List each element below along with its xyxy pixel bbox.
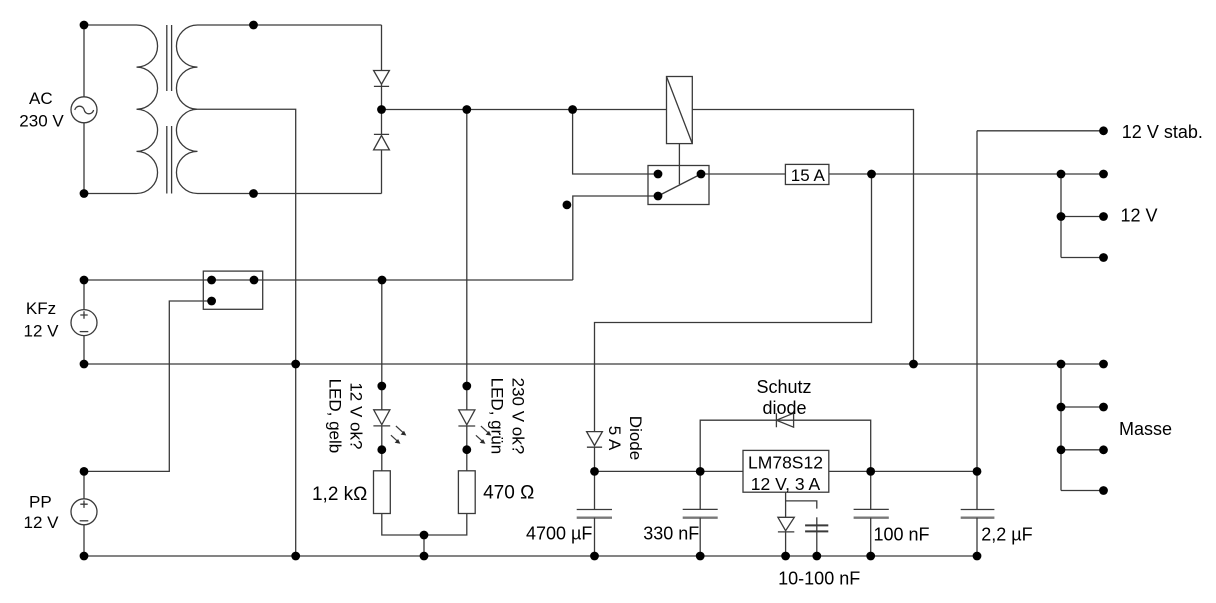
relay coil K1 diagonal [667, 77, 693, 144]
wire ground bottom rail [84, 555, 977, 557]
LED2 arrows [476, 426, 489, 442]
LED2 wire to resistor [466, 426, 468, 471]
node ground C3 [812, 552, 821, 561]
terminal Masse c [1099, 445, 1108, 454]
svg-text:LM78S12: LM78S12 [748, 452, 823, 472]
svg-text:230 V: 230 V [19, 111, 64, 130]
node LED2 anode [462, 382, 471, 391]
node ground D5 [781, 552, 790, 561]
svg-text:230 V ok?LED, grün: 230 V ok?LED, grün [488, 378, 528, 455]
node contact NO [654, 170, 663, 179]
capacitor C4 100nF top lead [870, 471, 872, 509]
capacitor C5 2.2uF top lead [976, 471, 978, 509]
node LED1 tap [378, 276, 387, 285]
node 12V group top [1057, 170, 1066, 179]
terminal 12V c [1099, 253, 1108, 262]
svg-text:12 V stab.: 12 V stab. [1122, 122, 1203, 142]
wire branch to trimmer cap [786, 501, 817, 509]
capacitor C1 4700uF bottom lead [594, 518, 596, 556]
PP source V3 circle [71, 499, 97, 525]
relay coil K1 [667, 77, 693, 144]
svg-text:15 A: 15 A [791, 166, 826, 185]
wire fuse node down to Diode 5A branch [595, 174, 872, 432]
node regulator input [696, 467, 705, 476]
capacitor C3 10-100nF lead and plates [816, 517, 818, 556]
wire rail branch to contact input [573, 110, 658, 175]
wire D5 to ground rail [785, 532, 787, 556]
wire secondary top to rectifier [198, 24, 382, 26]
capacitor C2 330nF top lead [699, 471, 701, 509]
node relay rail to Masse [909, 360, 918, 369]
node KFz minus [80, 360, 89, 369]
node 2.2uF top [973, 467, 982, 476]
diode D5 under regulator [778, 517, 794, 532]
node KFz switch lower [207, 297, 216, 306]
node LED2 cathode [462, 445, 471, 454]
transformer T1 core [167, 25, 172, 194]
fuse F1 15A box [785, 164, 829, 184]
wire secondary bottom to rectifier [198, 193, 382, 195]
wire contact common to KFz changeover [573, 196, 658, 280]
capacitor C2 330nF bottom lead [699, 518, 701, 556]
wire rectified rail to relay coil [382, 110, 914, 365]
node PP minus [80, 552, 89, 561]
node LED common ground [420, 552, 429, 561]
wire Masse terminal group [1061, 364, 1104, 491]
wire R1 to common [382, 514, 424, 536]
svg-text:12 V: 12 V [24, 513, 60, 532]
node secondary bottom polarity [249, 189, 258, 198]
node LED2 tap [462, 105, 471, 114]
wire D3 to reservoir node [594, 447, 596, 471]
node reservoir [590, 467, 599, 476]
wire Masse rail [84, 363, 1104, 365]
KFz source plus sign [80, 311, 87, 318]
wire AC top lead [83, 25, 85, 97]
node center tap ground [291, 552, 300, 561]
svg-text:Masse: Masse [1119, 419, 1172, 439]
node AC top [80, 21, 89, 30]
wire 12V stab output [977, 131, 1104, 472]
svg-text:12 V: 12 V [24, 322, 60, 341]
node contact output [697, 170, 706, 179]
terminal Masse d [1099, 486, 1108, 495]
svg-text:10-100 nF: 10-100 nF [778, 569, 860, 589]
wire switch output with fuse to terminals [701, 173, 1104, 175]
wire D2 to secondary bottom [381, 150, 383, 194]
node secondary top polarity [249, 21, 258, 30]
node rectifier output [377, 105, 386, 114]
wire 12V terminal group [1061, 174, 1104, 258]
svg-text:12 V, 3 A: 12 V, 3 A [751, 474, 821, 494]
svg-text:1,2 kΩ: 1,2 kΩ [312, 484, 367, 505]
wire LED common to ground rail [423, 535, 425, 556]
wire AC bottom lead [83, 123, 85, 194]
node ground C4 [866, 552, 875, 561]
PP source minus sign [80, 520, 89, 522]
LED1 yellow diode symbol [373, 410, 390, 426]
wire regulator input rail [595, 470, 978, 472]
node Masse group c [1057, 445, 1066, 454]
svg-text:2,2 µF: 2,2 µF [981, 525, 1032, 545]
capacitor C1 4700uF plates [577, 509, 612, 511]
node stray dot [563, 201, 572, 210]
diode D1 [374, 71, 390, 87]
wire regulator ground pin [785, 492, 787, 517]
resistor R2 470 body [458, 471, 475, 514]
terminal 12V a [1099, 170, 1108, 179]
transformer T1 secondary windings [176, 25, 197, 194]
node KFz switch right [250, 276, 259, 285]
LED1 arrows [391, 426, 404, 442]
wire PP source top lead [83, 471, 85, 498]
node ground C5 [973, 552, 982, 561]
transformer T1 primary winding [84, 25, 158, 194]
Schutzdiode D4 [776, 413, 793, 427]
wire between D1 and node [381, 84, 383, 134]
svg-text:330 nF: 330 nF [643, 524, 699, 544]
node center tap Masse [291, 360, 300, 369]
node KFz switch left [207, 276, 216, 285]
node AC bottom [80, 189, 89, 198]
wire KFz top rail [84, 279, 573, 281]
KFz source minus sign [80, 331, 89, 333]
capacitor C2 330nF plates [683, 508, 718, 510]
wire center tap [198, 109, 296, 556]
node fuse output branch [867, 170, 876, 179]
capacitor C5 2.2uF bottom lead [976, 518, 978, 556]
svg-text:4700 µF: 4700 µF [526, 524, 592, 544]
wire KFz source top lead [83, 280, 85, 310]
node Masse group top [1057, 360, 1066, 369]
svg-text:AC: AC [29, 89, 53, 108]
wire Schutzdiode loop [700, 420, 871, 471]
svg-text:Diode5 A: Diode5 A [605, 416, 645, 460]
junction and terminal dots [80, 21, 1108, 561]
node PP plus [80, 467, 89, 476]
node contact common [654, 192, 663, 201]
svg-text:470 Ω: 470 Ω [483, 482, 534, 503]
node ground C2 [696, 552, 705, 561]
terminal Masse b [1099, 403, 1108, 412]
node ground C1 [590, 552, 599, 561]
terminal 12V b [1099, 212, 1108, 221]
capacitor C5 2.2uF plates [961, 509, 995, 511]
wire PP source bottom lead [83, 525, 85, 556]
wire KFz source bottom lead [83, 336, 85, 364]
node contact feed tap [568, 105, 577, 114]
wire LED2 branch [466, 110, 468, 410]
terminal 12V stab [1099, 126, 1108, 135]
LED2 green diode symbol [458, 410, 475, 426]
svg-text:KFz: KFz [26, 299, 56, 318]
relay contact lever [658, 174, 701, 196]
relay contact box [648, 166, 709, 205]
svg-text:12 V: 12 V [1121, 206, 1158, 226]
wire KFz switch to PP [84, 301, 212, 471]
svg-text:Schutz: Schutz [756, 377, 811, 397]
AC source V1 circle [71, 97, 97, 123]
KFz switch box [203, 271, 262, 309]
svg-text:diode: diode [762, 398, 806, 418]
AC source sine symbol [75, 106, 94, 114]
regulator U1 LM78S12 box [743, 450, 829, 492]
terminal Masse a [1099, 360, 1108, 369]
wire LED1 branch [381, 280, 383, 410]
capacitor C4 100nF plates [854, 508, 889, 510]
node Masse group b [1057, 403, 1066, 412]
LED1 arrowheads [395, 431, 407, 444]
capacitor C1 4700uF top lead [594, 471, 596, 509]
node LED1 anode [377, 382, 386, 391]
capacitor C4 100nF bottom lead [870, 518, 872, 556]
PP source plus sign [80, 501, 87, 508]
KFz source V2 circle [71, 310, 97, 336]
wire R2 to common [424, 514, 467, 536]
svg-text:100 nF: 100 nF [874, 524, 930, 544]
svg-text:PP: PP [29, 493, 52, 512]
node KFz plus [80, 276, 89, 285]
wire rectifier top lead [381, 25, 383, 71]
LED1 wire to resistor [381, 426, 383, 471]
resistor R1 1.2k body [374, 471, 391, 514]
svg-text:12 V ok?LED, gelb: 12 V ok?LED, gelb [326, 379, 366, 454]
node regulator output [866, 467, 875, 476]
diode D3 5A [587, 432, 603, 448]
node 12V group mid [1057, 212, 1066, 221]
node LED common [420, 531, 429, 540]
diode D2 [374, 134, 390, 150]
LED2 arrowheads [480, 431, 492, 444]
wire coil actuator [678, 144, 680, 185]
node LED1 cathode [377, 445, 386, 454]
